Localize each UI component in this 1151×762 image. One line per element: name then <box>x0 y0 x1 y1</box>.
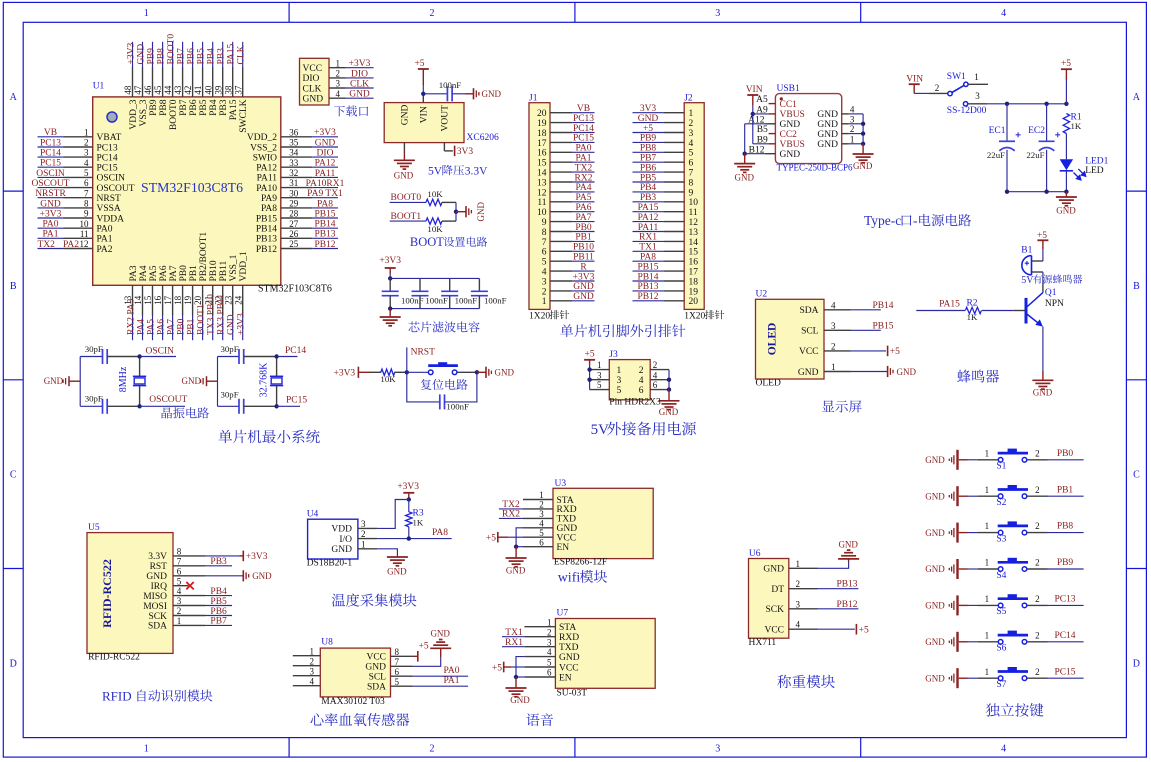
svg-text:4: 4 <box>850 105 855 115</box>
svg-text:11: 11 <box>689 208 698 218</box>
svg-text:U3: U3 <box>555 479 567 489</box>
svg-text:45: 45 <box>153 85 163 95</box>
caption 5V step-down 3.3V <box>428 166 443 178</box>
net label OSCOUT with wire <box>137 395 187 408</box>
svg-text:GND: GND <box>735 173 755 183</box>
svg-text:PC14: PC14 <box>1054 631 1075 641</box>
J1 pin 9 wire and net label PA7 <box>550 213 595 223</box>
LED1 diode symbol <box>1060 157 1109 192</box>
svg-text:VBUS: VBUS <box>780 110 805 120</box>
svg-text:1: 1 <box>850 134 855 144</box>
svg-text:OSCOUT: OSCOUT <box>31 179 69 189</box>
caption Type-c port power circuit <box>864 213 901 228</box>
U7 pin 4 GND wire to ground <box>516 647 555 677</box>
svg-text:1: 1 <box>985 485 990 495</box>
svg-text:SCK: SCK <box>766 605 785 615</box>
svg-text:5: 5 <box>617 386 622 396</box>
svg-text:CLK: CLK <box>350 79 369 89</box>
svg-text:10: 10 <box>689 198 699 208</box>
svg-text:R: R <box>580 262 587 272</box>
push button S3 with wires and net label PB8 <box>968 521 1084 544</box>
svg-text:MISO: MISO <box>143 592 167 602</box>
svg-text:33: 33 <box>289 158 299 168</box>
svg-text:2: 2 <box>361 529 366 539</box>
U1 top pin 44 BOOT0 with wire and net label <box>163 34 179 130</box>
svg-text:SDA: SDA <box>799 306 818 316</box>
U1 left pin 8 VSSA with wire and net label <box>38 199 121 215</box>
svg-text:PA10RX1: PA10RX1 <box>306 179 345 189</box>
svg-text:5: 5 <box>539 528 544 538</box>
svg-text:+5: +5 <box>643 124 653 134</box>
svg-text:+3V3: +3V3 <box>573 272 595 282</box>
svg-text:27: 27 <box>289 219 299 229</box>
svg-text:GND: GND <box>401 104 411 125</box>
svg-text:GND: GND <box>365 663 386 673</box>
microcontroller U1 STM32F103C8T6 body <box>93 81 332 294</box>
U1 top pin 40 PB4 with wire and net label <box>203 42 219 116</box>
push button S6 with wires and net label PC14 <box>968 630 1084 653</box>
svg-text:wifi: wifi <box>558 571 581 586</box>
svg-text:13: 13 <box>689 228 699 238</box>
svg-text:U2: U2 <box>756 290 768 300</box>
svg-text:GND: GND <box>798 368 819 378</box>
svg-text:12: 12 <box>80 239 89 249</box>
svg-text:5: 5 <box>597 380 602 390</box>
svg-text:PA15: PA15 <box>227 43 237 64</box>
J2 pin 6 wire and net label PB7 <box>633 154 685 164</box>
svg-text:PA15: PA15 <box>638 203 659 213</box>
svg-text:10: 10 <box>80 219 90 229</box>
svg-text:PB13: PB13 <box>314 230 335 240</box>
svg-text:D: D <box>1133 658 1140 669</box>
svg-text:STM32F103C8T6: STM32F103C8T6 <box>258 283 332 294</box>
caption reset circuit <box>421 379 468 390</box>
svg-text:PC15: PC15 <box>1054 667 1075 677</box>
svg-text:3: 3 <box>597 370 602 380</box>
J2 pin 3 wire and net label +5 <box>633 124 685 134</box>
svg-text:VIN: VIN <box>746 85 763 95</box>
svg-text:PB12: PB12 <box>836 600 857 610</box>
ground earth symbol above U6 (flipped) <box>838 539 859 559</box>
svg-text:2: 2 <box>1035 630 1040 640</box>
module U6 HX711 body <box>749 549 789 648</box>
svg-text:PB1: PB1 <box>1057 485 1074 495</box>
svg-text:NRSTR: NRSTR <box>35 189 66 199</box>
svg-text:1: 1 <box>689 109 694 119</box>
svg-text:3: 3 <box>715 743 720 754</box>
svg-text:LED1: LED1 <box>1085 157 1108 167</box>
svg-text:PA15: PA15 <box>229 99 239 120</box>
svg-text:+3V3: +3V3 <box>40 209 62 219</box>
svg-text:SW1: SW1 <box>947 72 966 82</box>
J1 pin 5 wire and net label PB11 <box>550 253 595 263</box>
svg-text:PA12: PA12 <box>315 159 336 169</box>
svg-text:BOOT0: BOOT0 <box>167 34 177 65</box>
resistor 10K reset pull-up <box>369 369 407 384</box>
svg-text:25: 25 <box>289 239 299 249</box>
svg-text:+3V3: +3V3 <box>237 313 247 335</box>
power +5 port of J3 <box>584 350 595 365</box>
crystal Y? 32.768K symbol <box>258 357 283 407</box>
ground earth symbol of temperature sensor <box>387 557 408 577</box>
svg-text:6: 6 <box>639 386 644 396</box>
caption weighing module <box>777 675 835 688</box>
U1 top pin 47 VSS_3 with wire and net label <box>133 42 149 127</box>
svg-text:U1: U1 <box>93 81 105 91</box>
download port pin 2 wire and net label DIO <box>329 69 374 80</box>
svg-text:PA7: PA7 <box>169 265 179 281</box>
ground bar symbol of button S6 <box>925 632 967 652</box>
svg-text:VIN: VIN <box>420 106 430 123</box>
svg-text:PC15: PC15 <box>40 159 61 169</box>
svg-text:PA11: PA11 <box>638 223 659 233</box>
wire +5 power rail node row <box>987 102 1069 106</box>
U1 left pin 12 PA2 with wire and net label <box>38 239 113 255</box>
svg-text:C: C <box>10 470 17 481</box>
svg-text:3: 3 <box>542 277 547 287</box>
svg-text:GND: GND <box>559 653 580 663</box>
svg-text:PA1: PA1 <box>575 154 591 164</box>
svg-text:5: 5 <box>84 168 89 178</box>
svg-text:VCC: VCC <box>559 663 579 673</box>
svg-text:3.3V: 3.3V <box>465 166 488 178</box>
svg-text:31: 31 <box>289 178 298 188</box>
svg-text:VSS_3: VSS_3 <box>139 99 149 126</box>
power +3V3 port of reset circuit <box>333 367 369 379</box>
svg-text:GND: GND <box>146 572 167 582</box>
svg-text:1: 1 <box>985 667 990 677</box>
J1 pin 12 wire and net label PA4 <box>550 183 595 193</box>
J2 pin 9 wire and net label PB4 <box>633 183 685 193</box>
U1 left pin 4 PC15 with wire and net label <box>38 158 118 174</box>
svg-text:VCC: VCC <box>764 626 784 636</box>
svg-text:MOSI: MOSI <box>143 602 167 612</box>
wire emitter to ground <box>1042 327 1044 380</box>
svg-text:PB3: PB3 <box>640 193 657 203</box>
svg-text:S1: S1 <box>996 462 1006 472</box>
svg-text:PB9: PB9 <box>146 48 156 65</box>
svg-text:+3V3: +3V3 <box>349 59 371 69</box>
svg-text:-: - <box>913 213 918 228</box>
U1 right pin 29 PA8 with wire and net label <box>261 199 338 215</box>
U2 pin 2 VCC wire to +5 power <box>824 341 900 357</box>
svg-text:7: 7 <box>84 188 89 198</box>
wire bottom ground rail of power circuit <box>1005 190 1069 194</box>
ground earth symbol right of USB1 <box>853 144 874 171</box>
svg-text:3: 3 <box>796 599 801 609</box>
svg-text:TXD: TXD <box>559 643 579 653</box>
U7 pin 3 TXD wire and net label RX1 <box>502 637 555 648</box>
U8 left pin 2 stub <box>293 656 321 666</box>
svg-text:U8: U8 <box>321 638 333 648</box>
J2 pin 17 wire and net label PB15 <box>633 262 685 272</box>
svg-text:PC14: PC14 <box>573 124 594 134</box>
switch SW1 SS-12D00 <box>914 72 988 116</box>
svg-text:PA7: PA7 <box>575 213 591 223</box>
svg-text:3: 3 <box>336 79 341 89</box>
svg-text:PA9: PA9 <box>261 194 277 204</box>
svg-text:1: 1 <box>336 58 341 68</box>
U1 left pin 3 PC14 with wire and net label <box>38 148 118 164</box>
svg-text:8: 8 <box>395 647 400 657</box>
U7 pin 1 STA stub <box>524 617 555 627</box>
svg-text:OLED: OLED <box>767 323 779 356</box>
svg-text:VBAT: VBAT <box>97 133 122 143</box>
svg-text:PB0: PB0 <box>177 318 187 335</box>
svg-text:4: 4 <box>796 620 801 630</box>
svg-text:37: 37 <box>233 85 243 95</box>
svg-text:1: 1 <box>974 72 979 82</box>
svg-text:GND: GND <box>925 528 945 538</box>
net label PA15 with base wire <box>916 300 965 311</box>
svg-text:S6: S6 <box>996 644 1006 654</box>
U1 bottom pin 15 PA5 with wire and net label <box>143 265 159 340</box>
svg-text:VDDA: VDDA <box>97 214 125 224</box>
power +5 port at regulator input <box>414 59 428 85</box>
svg-text:DIO: DIO <box>303 74 320 84</box>
svg-text:GND: GND <box>495 368 515 378</box>
U3 pin 6 EN wire and junction <box>514 537 553 549</box>
svg-text:EN: EN <box>559 673 572 683</box>
U2 pin 4 SDA wire and net label PB14 <box>824 300 894 311</box>
svg-text:2: 2 <box>430 743 435 754</box>
svg-text:30pF: 30pF <box>85 394 103 404</box>
U5 pin 7 RST wire and net label PB3 <box>173 556 232 567</box>
power +3V3 port of temperature sensor <box>397 482 419 502</box>
svg-text:GND: GND <box>925 637 945 647</box>
svg-text:12: 12 <box>537 188 547 198</box>
svg-text:4: 4 <box>831 300 836 310</box>
svg-text:2: 2 <box>84 138 89 148</box>
push button reset switch <box>407 362 477 374</box>
svg-text:19: 19 <box>689 287 699 297</box>
svg-text:28: 28 <box>289 209 299 219</box>
U1 left pin 11 PA1 with wire and net label <box>38 229 113 245</box>
wire junction joining BOOT resistors <box>454 202 458 221</box>
net label PC14 with wire <box>274 346 306 359</box>
capacitor 100nF filter #2 <box>412 278 448 308</box>
svg-text:U5: U5 <box>88 523 100 533</box>
svg-text:BOOT1: BOOT1 <box>197 304 207 335</box>
svg-text:PB0: PB0 <box>575 223 592 233</box>
svg-text:LED: LED <box>1085 166 1104 176</box>
J1 pin 15 wire and net label PA1 <box>550 154 595 164</box>
svg-text:5: 5 <box>177 576 182 586</box>
U1 top pin 39 PB3 with wire and net label <box>213 42 229 116</box>
svg-text:S5: S5 <box>996 607 1006 617</box>
svg-text:30: 30 <box>289 188 299 198</box>
svg-text:PB7: PB7 <box>177 48 187 65</box>
svg-text:PA10: PA10 <box>256 184 277 194</box>
svg-text:14: 14 <box>689 238 699 248</box>
svg-text:GND: GND <box>482 89 502 99</box>
svg-text:+5: +5 <box>419 641 429 651</box>
svg-text:GND: GND <box>573 282 594 292</box>
svg-text:U7: U7 <box>557 609 569 619</box>
U1 top pin 48 VDD_3 with wire and net label <box>123 42 139 130</box>
svg-text:VIN: VIN <box>906 74 923 84</box>
svg-text:PB5: PB5 <box>197 48 207 65</box>
svg-text:6: 6 <box>395 667 400 677</box>
svg-text:PA5: PA5 <box>146 319 156 335</box>
svg-text:VSS_1: VSS_1 <box>229 254 239 281</box>
svg-text:XC6206: XC6206 <box>467 133 499 143</box>
svg-text:USB1: USB1 <box>777 84 800 94</box>
svg-text:GND: GND <box>925 491 945 501</box>
svg-text:EC2: EC2 <box>1028 126 1045 136</box>
svg-text:4: 4 <box>639 376 644 386</box>
svg-text:22uF: 22uF <box>1026 150 1044 160</box>
svg-text:RFID-RC522: RFID-RC522 <box>100 559 114 628</box>
U1 bottom pin 23 VSS_1 with wire and net label <box>223 254 239 340</box>
J2 pin 2 wire and net label GND <box>633 114 685 124</box>
caption 5V external backup power <box>591 422 610 438</box>
svg-text:+5: +5 <box>486 534 496 544</box>
svg-text:PA0: PA0 <box>97 225 113 235</box>
svg-text:2: 2 <box>639 366 644 376</box>
svg-text:VSS_2: VSS_2 <box>250 143 277 153</box>
capacitor 100nF filter #4 <box>471 278 507 308</box>
svg-text:48: 48 <box>123 85 133 95</box>
svg-text:PC13: PC13 <box>573 114 594 124</box>
svg-text:VCC: VCC <box>557 534 577 544</box>
U1 top pin 43 PB7 with wire and net label <box>173 42 189 116</box>
svg-text:GND: GND <box>817 130 838 140</box>
svg-text:PB3: PB3 <box>210 557 227 567</box>
svg-text:GND: GND <box>44 376 64 386</box>
ground earth symbol of J3 <box>659 390 680 417</box>
caption RFID automatic identification module <box>102 689 132 704</box>
svg-text:SDA: SDA <box>148 622 167 632</box>
ground earth symbol of filter capacitors <box>380 309 401 326</box>
svg-text:100nF: 100nF <box>425 296 448 306</box>
svg-text:GND: GND <box>430 628 450 638</box>
svg-text:PB8: PB8 <box>640 144 657 154</box>
sensor U8 MAX30102 body <box>320 638 390 708</box>
svg-text:TX2: TX2 <box>575 163 593 173</box>
U1 top pin 41 PB5 with wire and net label <box>193 42 209 116</box>
svg-text:HX711: HX711 <box>749 638 777 648</box>
svg-text:GND: GND <box>1033 388 1053 398</box>
svg-text:8: 8 <box>542 228 547 238</box>
crystal Y? 8MHz symbol <box>118 357 146 407</box>
svg-text:ESP8266-12F: ESP8266-12F <box>554 558 607 568</box>
svg-text:17: 17 <box>163 295 173 305</box>
svg-text:PA15: PA15 <box>939 300 960 310</box>
svg-text:5V: 5V <box>428 166 443 178</box>
svg-text:GND: GND <box>817 140 838 150</box>
svg-text:8MHz: 8MHz <box>118 366 129 392</box>
svg-text:B: B <box>10 281 17 292</box>
svg-text:PB5: PB5 <box>199 99 209 116</box>
U1 bottom pin 13 PA3 with wire and net label <box>123 265 139 340</box>
ground earth symbol of power circuit <box>1056 192 1077 216</box>
caption BOOT setting circuit <box>410 235 444 249</box>
svg-text:2: 2 <box>542 287 547 297</box>
connector J1 1x20 pin header body <box>529 94 550 310</box>
svg-text:PB15: PB15 <box>314 209 335 219</box>
svg-text:4: 4 <box>542 268 547 278</box>
svg-text:MAX30102 T03: MAX30102 T03 <box>321 697 385 707</box>
svg-text:SU-03T: SU-03T <box>557 689 588 699</box>
U3 pin 2 RXD wire and net label TX2 <box>499 500 553 511</box>
svg-text:1: 1 <box>985 558 990 568</box>
svg-text:4: 4 <box>1001 743 1006 754</box>
svg-text:2: 2 <box>336 69 341 79</box>
svg-text:PA2: PA2 <box>63 240 79 250</box>
push button S2 with wires and net label PB1 <box>968 485 1084 508</box>
J1 pin 8 wire and net label PB0 <box>550 223 595 233</box>
svg-text:RFID: RFID <box>102 689 132 704</box>
svg-text:PB9: PB9 <box>1057 558 1074 568</box>
caption heart-rate blood-oxygen sensor <box>311 713 410 726</box>
J2 pin 20 wire and net label PB12 <box>633 292 685 302</box>
svg-text:+5: +5 <box>585 350 595 360</box>
svg-text:PB5: PB5 <box>210 597 227 607</box>
U1 right pin 36 VDD_2 with wire and net label <box>247 127 338 143</box>
svg-text:10: 10 <box>537 208 547 218</box>
svg-text:DS18B20-1: DS18B20-1 <box>307 559 353 569</box>
svg-text:PA8: PA8 <box>640 253 656 263</box>
svg-text:5: 5 <box>689 149 694 159</box>
U8 left pin 1 stub <box>293 646 321 656</box>
svg-text:PB15: PB15 <box>256 214 277 224</box>
svg-text:RXD: RXD <box>557 505 577 515</box>
U1 right pin 28 PB15 with wire and net label <box>256 209 338 225</box>
ground bar symbol of button S4 <box>925 559 967 579</box>
ground earth symbol of buzzer circuit <box>1032 380 1053 397</box>
ground earth symbol above U8 (flipped) <box>430 628 451 648</box>
svg-text:36: 36 <box>289 127 299 137</box>
svg-text:9: 9 <box>689 188 694 198</box>
svg-text:TX1: TX1 <box>505 628 523 638</box>
J2 pin 16 wire and net label PA8 <box>633 253 685 263</box>
module U5 RFID-RC522 body <box>87 523 173 662</box>
svg-text:VCC: VCC <box>303 64 323 74</box>
svg-text:PB12: PB12 <box>637 292 658 302</box>
svg-text:VDD_3: VDD_3 <box>129 99 139 129</box>
U3 pin 4 GND wire to ground <box>516 518 553 546</box>
capacitor 30pF lower of 8MHz crystal <box>80 394 139 414</box>
svg-text:2: 2 <box>1035 594 1040 604</box>
svg-text:13: 13 <box>537 178 547 188</box>
svg-text:GND: GND <box>136 44 146 65</box>
USB1 right shield pins 4 3 2 1 with wires <box>842 105 866 147</box>
svg-text:4: 4 <box>310 676 315 686</box>
svg-text:4: 4 <box>689 139 694 149</box>
svg-text:DIO: DIO <box>351 69 368 79</box>
caption MCU minimum system <box>219 430 320 444</box>
svg-text:1: 1 <box>547 617 552 627</box>
U1 right pin 27 PB14 with wire and net label <box>256 219 338 235</box>
U6 pin 3 SCK wire and net label PB12 <box>789 599 859 610</box>
svg-text:B1: B1 <box>1021 246 1032 256</box>
U5 pin 2 SCK wire and net label PB6 <box>173 606 232 617</box>
svg-text:PC15: PC15 <box>97 164 118 174</box>
svg-text:1: 1 <box>831 362 836 372</box>
connector USB1 TYPEC-250D-BCP6 body <box>775 84 853 173</box>
svg-text:PA6: PA6 <box>159 265 169 281</box>
U1 top pin 37 SWCLK with wire and net label <box>233 42 249 133</box>
J2 pin 5 wire and net label PB8 <box>633 144 685 154</box>
svg-text:GND: GND <box>315 138 336 148</box>
svg-text:PA4: PA4 <box>575 183 591 193</box>
svg-text:3V3: 3V3 <box>640 104 657 114</box>
svg-text:17: 17 <box>537 139 547 149</box>
svg-text:GND: GND <box>659 407 679 417</box>
svg-text:NRST: NRST <box>97 194 121 204</box>
svg-text:PC15: PC15 <box>573 134 594 144</box>
